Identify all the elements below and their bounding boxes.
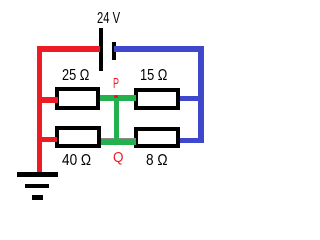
battery V1 short plate (-) — [112, 42, 116, 60]
ground bar 3 — [32, 195, 43, 200]
wire red top horizontal (battery + to left rail) — [37, 46, 101, 52]
label 40 ohm (R3 value) — [62, 153, 91, 169]
wire blue right rail vertical — [198, 46, 204, 143]
wire green top horizontal (R1 to R2, node P) — [100, 95, 137, 101]
resistor R3 40 ohm body — [55, 126, 101, 148]
label 15 ohm (R2 value) — [140, 68, 167, 84]
resistor R2 15 ohm body — [134, 88, 181, 111]
wire red stub to R3 — [42, 137, 57, 142]
node P label — [113, 77, 119, 92]
wire green middle vertical (node P to node Q) — [114, 95, 120, 145]
node P red dot marker — [114, 95, 118, 98]
wire blue stub from R2 — [180, 96, 198, 101]
label 25 ohm (R1 value) — [62, 68, 89, 84]
node Q label — [113, 151, 123, 166]
ground bar 2 — [25, 184, 49, 189]
wire blue top horizontal (battery - to right rail) — [114, 46, 205, 52]
wire green bottom horizontal (R3 to R4, node Q) — [101, 138, 136, 145]
label 8 ohm (R4 value) — [146, 153, 168, 169]
resistor R1 25 ohm body — [55, 87, 101, 110]
battery V1 long plate (+) — [99, 28, 103, 71]
wire red left rail vertical — [37, 46, 43, 174]
wire red stub to R1 — [42, 97, 58, 102]
resistor R4 8 ohm body — [134, 127, 180, 148]
label 24 V (battery value) — [97, 11, 120, 27]
ground bar 1 — [17, 172, 59, 177]
wire blue bottom stub from R4 — [179, 138, 205, 143]
